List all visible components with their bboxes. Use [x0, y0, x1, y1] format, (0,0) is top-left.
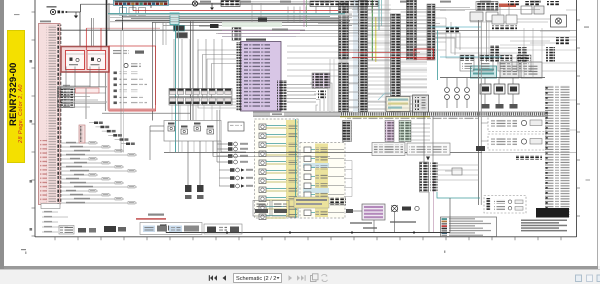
- dense block right-centre mid: [446, 27, 460, 33]
- inline components bottom centre: [402, 207, 411, 211]
- schematic sheet border (left edge with ruler ticks): [34, 0, 36, 237]
- pale blue channel: [353, 0, 359, 112]
- harness riser pair (double grey vertical): [478, 20, 480, 205]
- ECM A1 pin column J1: [237, 42, 242, 111]
- monitor box internal components: [113, 50, 129, 55]
- diode block D2: [210, 24, 219, 28]
- wire rows below P1 to bottom border: [42, 211, 58, 213]
- long horizontal harness centre: [213, 152, 482, 154]
- last-page button (double right arrow, disabled): [297, 275, 306, 281]
- option group box 2 (dashed): [488, 134, 546, 150]
- wire routing loops left of ECM (nested rectangles): [198, 50, 236, 108]
- connector block with red label top right-centre: [476, 2, 498, 11]
- top connector blocks right margin: [508, 1, 520, 6]
- wire teal verticals centre: [378, 0, 380, 30]
- wires from key switch group: [150, 125, 164, 127]
- gauge cluster boxes right top: [521, 6, 532, 14]
- relay block right-centre upper: [470, 12, 483, 21]
- viewer right window edge: [597, 0, 598, 266]
- svg-text:Schematic (2 / 2: Schematic (2 / 2: [236, 276, 276, 282]
- registration mark lower-left margin: [21, 249, 26, 250]
- yellow footer of sensor block: [294, 197, 329, 208]
- wire below monitor box: [102, 112, 190, 114]
- ECM label: [246, 39, 266, 41]
- pin mini-columns right-centre: [490, 45, 499, 62]
- window control icon right 1: [576, 275, 582, 282]
- wire red verticals into relay boxes: [85, 28, 87, 50]
- ground stub: [211, 3, 213, 7]
- banner title text RENR7329-00: [8, 63, 19, 127]
- engine sensor group enclosure (dashed): [255, 119, 299, 218]
- registration mark top-right margin: [584, 27, 589, 28]
- fuse panel connector strip (top, colored): [114, 0, 169, 5]
- violet pin block right of ECM (y73): [312, 73, 330, 88]
- grey routing channel left-centre: [57, 86, 107, 88]
- terminal bus TB1 right segment (tick strip): [340, 112, 548, 116]
- wires X6 to right riser: [438, 164, 479, 166]
- wires right legend to border: [566, 99, 576, 101]
- connector stack X6 (centre-low right): [420, 162, 429, 192]
- teal vertical drop bundle: [175, 25, 177, 153]
- violet pin blocks below bus: [385, 121, 394, 142]
- wire rows out of P1 lower group with labels: [61, 142, 98, 144]
- relay cluster right-centre (grey boxes with pins): [492, 15, 504, 24]
- harness connector column X3: [391, 14, 401, 112]
- extra cross wires central columns: [349, 3, 360, 5]
- wires right side y60-75: [497, 62, 576, 64]
- legend note text rows (below black block): [521, 220, 567, 222]
- viewer left gutter strip: [0, 0, 4, 269]
- wire stubs into right border: [566, 9, 576, 11]
- machine interface row above bottom border: [140, 223, 202, 235]
- red row labels inside P1: [40, 140, 47, 203]
- verticals X1 bottom to bus: [329, 59, 331, 112]
- terminal bus TB1 left segment (grey band): [253, 112, 340, 116]
- hour meter small box: [228, 122, 244, 131]
- wire red from fuse strip: [86, 27, 160, 29]
- connector strip row CN1 (double row): [170, 89, 176, 91]
- feeder drops from strip B: [315, 7, 317, 14]
- bottom-left extra components: [60, 227, 73, 234]
- relay K1b inner box: [87, 51, 106, 70]
- refresh icon (disabled): [321, 274, 327, 281]
- vertical wire pair feeding pigtails: [216, 110, 218, 162]
- vertical drops from key switch group to lower bus: [169, 141, 171, 153]
- harness verticals x121: [120, 30, 122, 152]
- red outlined box centre-right: [414, 49, 434, 59]
- small connector above ECM: [258, 18, 267, 22]
- wire drop from sensor area to bus: [449, 198, 451, 233]
- connector pigtails mid-left lower: [219, 169, 230, 171]
- wires from riser to option boxes: [481, 122, 488, 124]
- grid reference letters left margin: [30, 60, 33, 63]
- injector solenoid circles Y1 Y2 Y3: [446, 78, 448, 87]
- boxed lamp far right top: [551, 15, 567, 27]
- bulkhead connector label: [40, 21, 51, 23]
- wires from violet blocks right: [411, 123, 430, 125]
- wire green vertical: [371, 0, 373, 61]
- page bottom shadow: [4, 266, 598, 269]
- teal riser pair between sensor columns: [295, 119, 297, 218]
- terminal blocks at alternator output: [58, 11, 61, 14]
- main harness bus (horizontal bundle upper left-centre): [60, 29, 305, 31]
- cyan elbow near M1: [378, 93, 392, 100]
- monitor panel box (large red outline): [109, 46, 156, 111]
- module M2 block: [413, 95, 429, 112]
- legend black heading block: [536, 208, 569, 218]
- small connector below violet block: [318, 91, 326, 99]
- tiny labels along sheet top: [200, 1, 211, 3]
- relay symbols inside key switch group: [168, 126, 175, 131]
- wire bends to sensors: [221, 141, 246, 152]
- navigation toolbar: [0, 269, 600, 284]
- sensor pigtail pairs mid-left: [217, 143, 228, 145]
- connector row right-mid (y155): [516, 155, 542, 160]
- relay solenoids K5 K6 (rectangles): [484, 78, 486, 84]
- page select combo box: [234, 273, 282, 282]
- first-page button (double left arrow): [209, 275, 217, 281]
- wide grey harness band upper-left: [108, 13, 352, 15]
- bottom long bus wire: [166, 232, 450, 234]
- scrollbar track right of window edge: [598, 0, 600, 266]
- wire teal main feed (over band): [108, 13, 345, 15]
- wire teal main feed: [108, 13, 345, 15]
- labels under bottom components: [350, 222, 372, 224]
- wires ECM J2 to routing channel: [287, 84, 316, 86]
- component row centre-bottom (batteries and starter): [204, 224, 242, 234]
- battery disconnect relay box (salmon frame K1): [61, 47, 109, 73]
- gray boxes above bottom bus (bottom centre-left): [253, 201, 270, 217]
- upper long wires to right sheet edge: [300, 30, 576, 32]
- grey backings for central columns: [339, 2, 349, 112]
- pin block left of violet blocks (y120): [342, 121, 352, 142]
- wire red jumper centre: [340, 51, 420, 53]
- engine sensor group 2 enclosure (dashed): [300, 143, 345, 219]
- wire rows out of P1 upper group: [61, 85, 90, 87]
- violet-green wire pair to ECM from strip B: [303, 0, 305, 27]
- bulkhead connector P1 (tall pink block): [39, 24, 61, 205]
- relay K1a inner box: [66, 51, 85, 70]
- motor symbol bottom centre: [391, 205, 397, 211]
- pale cyan label rows in sensor column 2: [303, 163, 329, 168]
- schematic sheet border (bottom edge with ruler ticks): [35, 236, 577, 238]
- duplicate-view icon (disabled): [311, 273, 319, 281]
- P1 pin grid block: [58, 88, 75, 108]
- block right of yellow footer: [330, 197, 346, 205]
- harness connector column X1 lower: [339, 63, 349, 112]
- violet wires into ECM pin block: [222, 30, 305, 32]
- component legend table (right margin): [545, 85, 571, 217]
- wires right top area: [432, 7, 470, 9]
- arrow into X6 stack: [426, 157, 430, 161]
- wires upper-centre cross runs: [216, 33, 340, 35]
- P1 bottom label box: [41, 204, 60, 209]
- salmon harness highlight inside monitor box: [108, 73, 110, 111]
- wire gray bus pair below fuse strip: [122, 15, 330, 17]
- engine ECM A1 (lavender block): [241, 42, 282, 112]
- wires bottom centre to bus: [373, 220, 375, 233]
- teal striped block right: [471, 66, 497, 78]
- lavender vertical lower right-centre: [433, 180, 435, 232]
- battery B1 bottom left: [160, 225, 166, 231]
- harness connector column X2: [359, 0, 368, 112]
- wire risers to stack X6: [423, 112, 425, 162]
- vertical pair x152: [152, 22, 154, 121]
- block row right-centre (y55): [460, 55, 474, 61]
- vertical pair to relay group: [190, 21, 192, 120]
- alternator G1 symbol: [50, 9, 55, 14]
- grey elbow wires right-centre: [430, 33, 460, 50]
- riser junction blob: [476, 146, 485, 151]
- small switch left of row: [104, 226, 116, 232]
- cross wires between central columns: [349, 7, 359, 9]
- ground strap labels (red text): [136, 218, 166, 220]
- registration dash left margin: [14, 14, 20, 15]
- junction dots on bottom bus: [226, 231, 228, 233]
- relay box pair right (y168): [452, 168, 462, 175]
- wire sender to connector: [198, 2, 221, 4]
- cross wires right of column X5: [435, 9, 446, 11]
- harness connector column X1: [339, 2, 349, 59]
- wire teal right loop: [437, 30, 439, 80]
- wires ECM to column X1: [287, 45, 339, 47]
- schematic sheet border (right edge with ruler ticks): [576, 0, 578, 237]
- teal junction box left-centre: [170, 13, 179, 25]
- wire bundle top centre-right diagonals: [310, 19, 430, 21]
- wire colour legend table (bottom right): [441, 217, 497, 237]
- vertical drops right blocks to solenoid bus: [523, 28, 525, 78]
- vertical pair x163: [162, 22, 164, 45]
- feeder drops from strip B to ECM region: [287, 7, 289, 23]
- pin block above ECM: [232, 28, 241, 41]
- small blocks far right upper: [556, 37, 570, 45]
- labels under terminal bus: [345, 118, 480, 120]
- grey block pair right of teal block: [500, 62, 519, 78]
- narrow pink connector strip (left-centre): [79, 125, 85, 143]
- wire drops from relay boxes down: [65, 67, 67, 88]
- option group box 3 (dashed, lower): [484, 196, 526, 214]
- wire from alternator to bus: [68, 11, 81, 13]
- ECM A1 pin column J2 (right edge): [277, 80, 287, 111]
- control module M1 (teal/yellow striped): [386, 97, 410, 112]
- wire yellow vertical: [375, 17, 377, 62]
- window control icon right 3 (clipped): [597, 275, 600, 282]
- solenoid row bus: [440, 77, 545, 79]
- diagonal cascade of inline connectors (left): [94, 122, 98, 125]
- wires from sensor columns to right margin: [344, 160, 352, 162]
- bulkhead connector P1 pin column: [57, 25, 62, 204]
- next-page button (right arrow, disabled): [289, 275, 293, 281]
- junction block cluster below teal box: [174, 26, 185, 32]
- option group box 1 (dashed): [488, 116, 546, 132]
- sensor rows in left sensor column: [259, 124, 266, 130]
- top connector strip B (centre): [310, 1, 378, 7]
- key switch S1 group box: [164, 121, 221, 142]
- registration mark lower-centre margin: [444, 251, 445, 253]
- connector block J4 (top centre-left): [221, 1, 240, 7]
- banner subtitle text: [18, 84, 24, 143]
- routing corners right of ECM: [310, 83, 332, 111]
- sender unit B3 symbol (circle with X): [192, 1, 197, 6]
- distribution block bottom centre (violet striped): [362, 204, 385, 220]
- feed wires into strips from above: [173, 39, 175, 89]
- connector stack X5 (top right of centre): [427, 4, 435, 60]
- fuse sub-boxes below strip: [120, 8, 127, 16]
- registration dash right margin: [586, 180, 591, 181]
- label below violet block: [363, 227, 377, 229]
- vertical feeders from fuse strip: [122, 5, 124, 30]
- harness connector column X4: [407, 0, 417, 60]
- grey routing channel centre: [385, 0, 390, 112]
- label right of ECM pin block: [272, 29, 288, 31]
- vertical harness heavy x106: [106, 0, 108, 48]
- pale green band above ECM: [222, 22, 282, 27]
- yellow wire under terminal bus: [340, 116, 430, 118]
- sensor rows in right sensor column: [304, 147, 311, 153]
- teal wire lower right: [437, 192, 480, 198]
- vertical feeders from CN strips to key switch group: [171, 105, 173, 121]
- nested routing rectangles right-centre: [446, 18, 530, 58]
- vertical harness pair x80: [79, 12, 81, 47]
- pink wire label at pin grid: [76, 88, 100, 93]
- ground symbol below alternator wire: [75, 12, 77, 16]
- previous-page button (left arrow): [223, 275, 227, 281]
- right margin wires above legend: [500, 44, 545, 46]
- pressure sensor pair lower: [187, 141, 189, 185]
- sheet-wide horizontal at y150 right portion: [482, 152, 576, 154]
- window control icon right 2: [587, 275, 593, 282]
- yellow bookmark banner: [7, 30, 25, 163]
- connector strip row CN2: [170, 98, 176, 101]
- relay blocks above X6 stack: [372, 143, 405, 156]
